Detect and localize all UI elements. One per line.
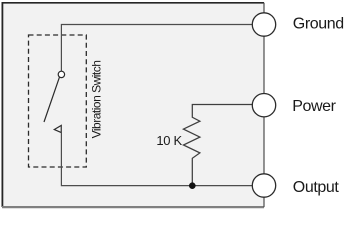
svg-text:Ground: Ground (293, 16, 344, 33)
junction node resistor/output wire (189, 182, 196, 189)
wire: switch top terminal to Ground pad (61, 25, 252, 72)
switch lower contact triangle (54, 125, 61, 132)
Output terminal pad (252, 174, 275, 197)
wire: switch bottom terminal to Output pad (61, 126, 252, 186)
Ground terminal pad (252, 13, 275, 36)
svg-text:10 K: 10 K (156, 133, 182, 148)
svg-text:Output: Output (293, 179, 340, 196)
wire: enclosure top edge (2, 2, 264, 4)
resistor R1 10K with wire to Power pad (183, 105, 252, 184)
switch pivot contact circle (58, 71, 64, 77)
Power terminal pad (252, 94, 275, 117)
svg-text:Power: Power (292, 98, 336, 115)
vibration switch S1 dashed boundary (29, 35, 87, 167)
wire: enclosure left edge (1, 2, 3, 207)
board enclosure fill (3, 3, 265, 207)
wire: enclosure right edge bus through terminals (263, 3, 265, 207)
wire: enclosure bottom edge (2, 206, 264, 208)
svg-text:Vibration Switch: Vibration Switch (90, 61, 104, 139)
switch blade (open) (44, 77, 59, 122)
